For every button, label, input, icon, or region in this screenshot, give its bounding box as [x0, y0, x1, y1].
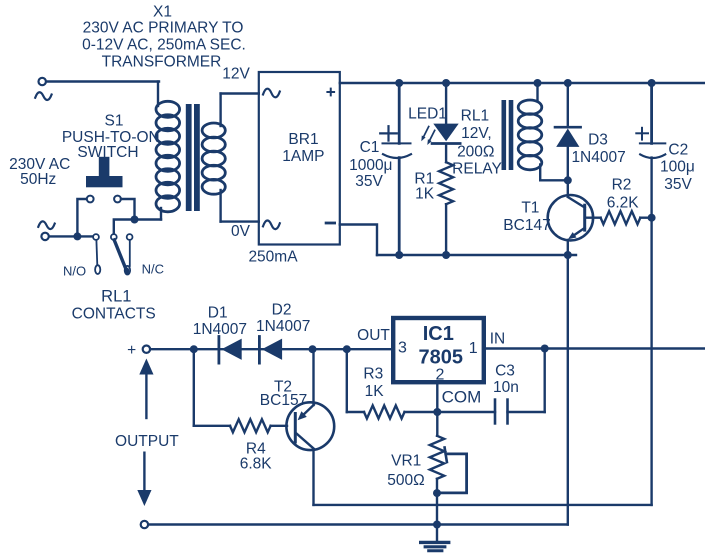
svg-text:N/C: N/C [142, 262, 164, 277]
svg-text:COM: COM [442, 388, 482, 407]
svg-text:1AMP: 1AMP [282, 148, 324, 165]
svg-text:S1: S1 [105, 113, 124, 130]
svg-text:250mA: 250mA [248, 248, 298, 265]
svg-text:200Ω: 200Ω [457, 144, 494, 161]
svg-text:1K: 1K [415, 186, 435, 203]
svg-text:7805: 7805 [419, 346, 464, 368]
svg-text:230V AC PRIMARY TO: 230V AC PRIMARY TO [83, 20, 244, 37]
svg-text:1N4007: 1N4007 [193, 321, 247, 338]
svg-text:6.2K: 6.2K [607, 194, 640, 211]
svg-text:D1: D1 [208, 305, 228, 322]
svg-text:OUT: OUT [357, 327, 390, 344]
svg-text:C1: C1 [360, 139, 380, 156]
svg-text:LED1: LED1 [408, 106, 447, 123]
svg-text:1N4007: 1N4007 [256, 318, 310, 335]
svg-text:RELAY: RELAY [452, 160, 502, 177]
svg-text:6.8K: 6.8K [240, 456, 273, 473]
svg-text:12V,: 12V, [461, 125, 491, 142]
svg-text:T1: T1 [521, 200, 539, 217]
svg-text:N/O: N/O [63, 264, 86, 279]
svg-text:IN: IN [490, 331, 506, 348]
svg-text:CONTACTS: CONTACTS [72, 305, 156, 322]
svg-text:D3: D3 [588, 131, 608, 148]
svg-text:R3: R3 [363, 366, 383, 383]
svg-text:10n: 10n [493, 379, 519, 396]
svg-text:0-12V AC, 250mA SEC.: 0-12V AC, 250mA SEC. [82, 37, 246, 54]
svg-text:BR1: BR1 [288, 131, 318, 148]
svg-text:IC1: IC1 [423, 323, 454, 345]
svg-text:SWITCH: SWITCH [77, 144, 138, 161]
svg-text:2: 2 [436, 366, 445, 383]
svg-text:TRANSFORMER: TRANSFORMER [102, 54, 222, 71]
svg-text:1000μ: 1000μ [349, 157, 392, 174]
svg-text:VR1: VR1 [391, 452, 421, 469]
svg-text:R2: R2 [612, 177, 632, 194]
svg-text:1: 1 [469, 340, 478, 357]
svg-text:BC147: BC147 [503, 217, 550, 234]
svg-text:3: 3 [398, 340, 407, 357]
svg-text:+: + [127, 342, 136, 359]
svg-text:X1: X1 [153, 4, 172, 21]
svg-text:D2: D2 [272, 301, 292, 318]
svg-text:50Hz: 50Hz [20, 171, 56, 188]
svg-text:C3: C3 [495, 363, 515, 380]
svg-text:RL1: RL1 [101, 287, 131, 305]
svg-text:35V: 35V [355, 173, 383, 190]
svg-text:35V: 35V [664, 176, 692, 193]
svg-text:100μ: 100μ [660, 159, 695, 176]
svg-text:0V: 0V [231, 223, 251, 240]
svg-text:OUTPUT: OUTPUT [115, 433, 179, 450]
svg-text:12V: 12V [222, 66, 250, 83]
svg-text:RL1: RL1 [461, 108, 489, 125]
svg-text:C2: C2 [668, 142, 688, 159]
svg-text:1N4007: 1N4007 [571, 149, 625, 166]
svg-text:1K: 1K [365, 383, 385, 400]
svg-text:BC157: BC157 [260, 392, 307, 409]
svg-text:500Ω: 500Ω [387, 472, 424, 489]
